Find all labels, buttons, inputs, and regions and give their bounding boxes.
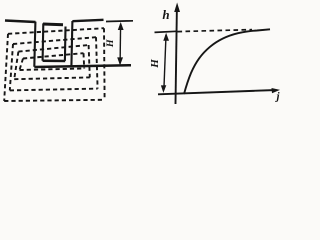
dimension H: vertical line [119, 24, 122, 64]
flux line loop 1 (outermost dashed) [4, 28, 104, 101]
conductor bottom [43, 60, 66, 63]
dimension H (graph): vertical line [164, 35, 166, 89]
dashed asymptote [178, 30, 253, 32]
dimension H (graph): arrowhead down [161, 85, 166, 93]
x-axis arrowhead [272, 88, 281, 93]
svg-text:h: h [162, 7, 169, 22]
svg-text:H: H [105, 39, 116, 48]
wire: right iron surface line [72, 20, 103, 21]
wire: slot right wall [71, 21, 72, 67]
dimension H (graph): top tick [155, 31, 177, 32]
dimension H (graph): arrowhead up [163, 33, 169, 41]
x-axis (j) [158, 90, 277, 94]
conductor top [43, 23, 63, 27]
svg-text:j: j [274, 91, 280, 103]
wire: slot left wall [34, 22, 35, 67]
y-axis arrowhead [174, 3, 180, 13]
flux line loop 4 (innermost, crosses slot) [20, 53, 85, 70]
curve [184, 29, 270, 94]
dimension H: arrowhead up [118, 22, 124, 30]
y-axis (h) [176, 7, 177, 104]
dimension H (slot depth): top tick [106, 20, 133, 23]
flux line loop 2 [10, 37, 98, 90]
conductor right edge [64, 27, 67, 61]
dimension H: arrowhead down [117, 57, 123, 65]
wire: slot bottom line extended to dimension [34, 65, 131, 67]
svg-text:H: H [149, 59, 161, 69]
wire: left iron surface line [5, 21, 36, 23]
conductor left edge [42, 23, 45, 60]
flux line loop 3 [14, 45, 90, 79]
